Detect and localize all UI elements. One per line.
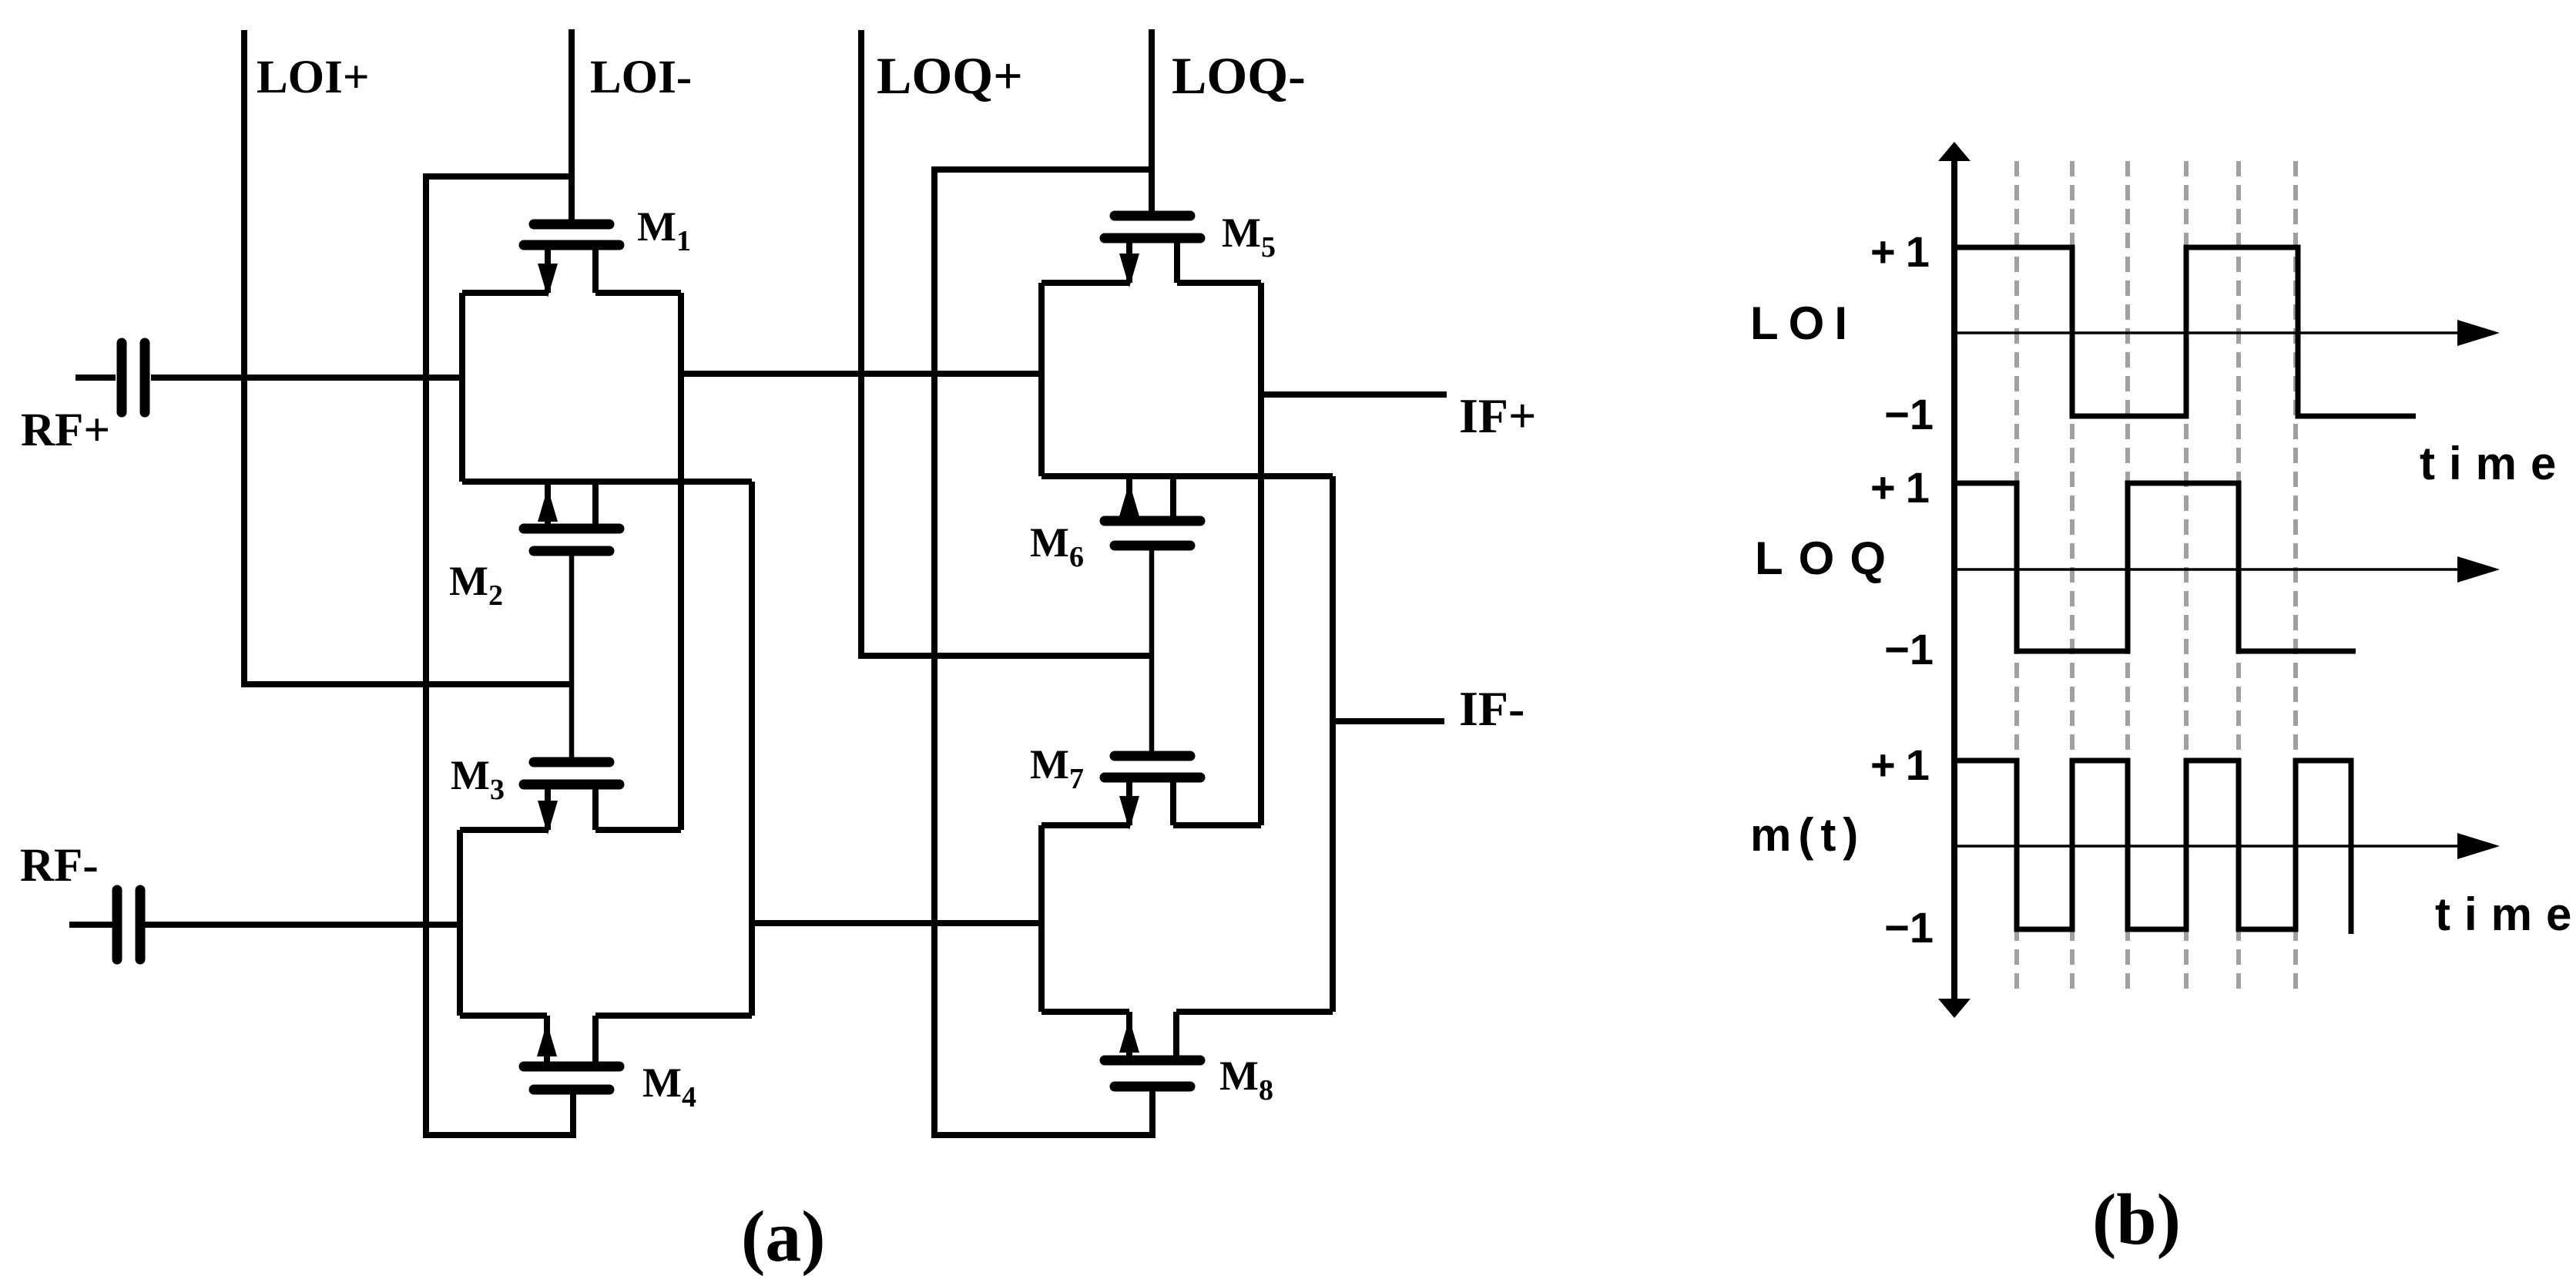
svg-text:LOQ: LOQ bbox=[1755, 532, 1901, 584]
svg-text:LOI-: LOI- bbox=[590, 52, 692, 103]
svg-text:IF+: IF+ bbox=[1459, 388, 1536, 443]
svg-text:time: time bbox=[2435, 888, 2576, 940]
svg-text:−1: −1 bbox=[1884, 390, 1934, 438]
svg-text:LOQ-: LOQ- bbox=[1172, 46, 1306, 105]
svg-text:LOQ+: LOQ+ bbox=[877, 46, 1023, 105]
svg-text:(a): (a) bbox=[741, 1197, 826, 1277]
svg-text:IF-: IF- bbox=[1459, 681, 1524, 736]
svg-text:(b): (b) bbox=[2092, 1180, 2181, 1260]
svg-text:RF+: RF+ bbox=[21, 405, 110, 456]
svg-text:−1: −1 bbox=[1884, 903, 1934, 952]
svg-text:time: time bbox=[2420, 438, 2570, 489]
svg-text:LOI: LOI bbox=[1750, 297, 1857, 349]
svg-text:LOI+: LOI+ bbox=[257, 52, 370, 103]
svg-text:+1: +1 bbox=[1870, 227, 1940, 276]
svg-text:+1: +1 bbox=[1870, 463, 1940, 512]
svg-text:RF-: RF- bbox=[20, 840, 99, 892]
svg-text:−1: −1 bbox=[1884, 625, 1934, 673]
svg-text:m(t): m(t) bbox=[1750, 809, 1865, 861]
svg-text:+1: +1 bbox=[1870, 741, 1940, 789]
